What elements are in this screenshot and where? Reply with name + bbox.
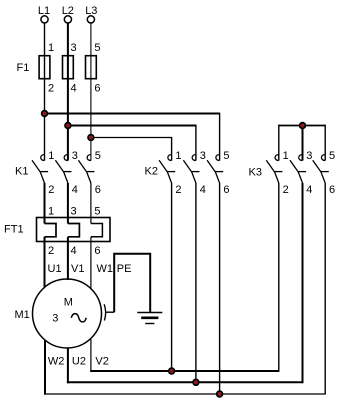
pin 2 fuse <box>48 83 54 95</box>
wire motor V2 down <box>90 339 92 373</box>
svg-text:1: 1 <box>175 150 181 162</box>
svg-text:M1: M1 <box>15 309 30 321</box>
terminal L1 <box>41 16 48 23</box>
svg-text:4: 4 <box>200 184 206 196</box>
wire K3 pole2 down <box>302 183 304 383</box>
svg-text:K2: K2 <box>145 166 158 178</box>
svg-text:FT1: FT1 <box>4 224 24 236</box>
node junction L3 <box>88 135 94 141</box>
motor PE terminal <box>104 304 105 320</box>
pin 2 K1 <box>48 184 54 196</box>
wire K1 pole3 to FT1 <box>90 183 92 224</box>
wire branch L3 to K2 <box>91 137 172 161</box>
label K1 <box>15 166 28 178</box>
contactor K2 pole 3 <box>207 155 223 183</box>
svg-text:5: 5 <box>329 150 335 162</box>
svg-text:4: 4 <box>71 83 77 95</box>
wire FT1 to motor V1 <box>67 237 69 280</box>
wire K2 pole3 down <box>219 183 221 394</box>
label V1 <box>71 263 84 275</box>
wire branch L1 to K2 <box>45 113 220 161</box>
wire K1 pole1 to FT1 <box>44 183 46 224</box>
wire L1 column <box>44 23 46 161</box>
svg-text:3: 3 <box>306 150 312 162</box>
label FT1 <box>4 224 24 236</box>
pin 6 K1 <box>95 184 101 196</box>
svg-text:2: 2 <box>175 184 181 196</box>
pin 4 K3 <box>306 184 312 196</box>
pin 2 FT1 <box>48 245 54 257</box>
wire K3 pole1 top <box>278 125 280 161</box>
terminal L3 <box>87 16 94 23</box>
wire branch L2 to K2 <box>68 125 196 161</box>
label L2 <box>62 5 74 17</box>
svg-text:5: 5 <box>95 150 101 162</box>
wire FT1 to motor U1 <box>44 237 46 288</box>
svg-text:2: 2 <box>48 83 54 95</box>
svg-text:3: 3 <box>71 206 77 218</box>
wire K2 pole1 down <box>171 183 173 371</box>
wire motor W2 down <box>44 341 46 395</box>
pin 1 K3 <box>283 150 289 162</box>
wire K3 pole1 down <box>278 183 280 372</box>
svg-text:2: 2 <box>48 245 54 257</box>
pin 3 FT1 <box>71 206 77 218</box>
svg-text:1: 1 <box>48 150 54 162</box>
svg-text:4: 4 <box>72 184 78 196</box>
pin 3 K1 <box>72 150 78 162</box>
svg-text:M: M <box>64 297 73 309</box>
pin 1 K2 <box>175 150 181 162</box>
svg-text:4: 4 <box>306 184 312 196</box>
motor M1 <box>33 279 102 348</box>
wire PE <box>106 254 150 313</box>
overload FT1 heater 2 <box>68 224 80 237</box>
pin 3 fuse <box>71 42 77 54</box>
svg-text:2: 2 <box>48 184 54 196</box>
pin 6 K3 <box>329 184 335 196</box>
wire bus W2 <box>44 393 325 395</box>
svg-text:W2: W2 <box>48 355 65 367</box>
pin 5 K1 <box>95 150 101 162</box>
pin 1 fuse <box>48 42 54 54</box>
label U2 <box>72 355 86 367</box>
node bus W2 junction <box>217 391 223 397</box>
wire K2 pole2 down <box>195 183 197 382</box>
svg-text:3: 3 <box>200 150 206 162</box>
label U1 <box>48 263 62 275</box>
contactor K3 pole 3 <box>313 155 329 183</box>
pin 5 K3 <box>329 150 335 162</box>
svg-text:1: 1 <box>48 206 54 218</box>
wire FT1 to motor W1 <box>90 237 92 290</box>
label V2 <box>95 355 108 367</box>
node K3 star point <box>300 123 306 129</box>
wire K3 pole3 down <box>324 183 326 395</box>
label PE <box>117 263 132 275</box>
svg-text:1: 1 <box>48 42 54 54</box>
svg-text:4: 4 <box>71 245 77 257</box>
svg-text:5: 5 <box>223 150 229 162</box>
pin 3 K2 <box>200 150 206 162</box>
pin 4 K2 <box>200 184 206 196</box>
pin 6 fuse <box>94 83 100 95</box>
svg-text:U1: U1 <box>48 263 62 275</box>
ground <box>137 313 162 324</box>
svg-text:1: 1 <box>283 150 289 162</box>
svg-text:PE: PE <box>117 263 132 275</box>
svg-text:6: 6 <box>94 83 100 95</box>
pin 5 K2 <box>223 150 229 162</box>
pin 4 fuse <box>71 83 77 95</box>
label M1 <box>15 309 30 321</box>
svg-text:6: 6 <box>94 245 100 257</box>
svg-text:3: 3 <box>72 150 78 162</box>
svg-text:5: 5 <box>94 206 100 218</box>
pin 1 K1 <box>48 150 54 162</box>
label L1 <box>38 5 50 17</box>
label L3 <box>85 5 97 17</box>
contactor K1 pole 1 <box>32 155 48 183</box>
contactor K1 pole 2 <box>55 155 71 183</box>
svg-text:6: 6 <box>223 184 229 196</box>
svg-text:3: 3 <box>52 313 58 325</box>
terminal L2 <box>64 16 71 23</box>
node bus U2 junction <box>193 379 199 385</box>
pin 2 K3 <box>283 184 289 196</box>
svg-text:F1: F1 <box>17 62 30 74</box>
svg-text:W1: W1 <box>97 263 114 275</box>
pin 6 K2 <box>223 184 229 196</box>
pin 1 FT1 <box>48 206 54 218</box>
wire K3 pole2 top <box>302 126 304 161</box>
svg-text:V1: V1 <box>71 263 84 275</box>
label K3 <box>249 167 262 179</box>
pin 4 FT1 <box>71 245 77 257</box>
node bus V2 junction <box>169 368 175 374</box>
pin 2 K2 <box>175 184 181 196</box>
svg-text:K3: K3 <box>249 167 262 179</box>
label F1 <box>17 62 30 74</box>
fuse F1 pole 1 <box>39 56 50 79</box>
contactor K2 pole 1 <box>159 155 175 183</box>
svg-text:K1: K1 <box>15 166 28 178</box>
overload relay FT1 box <box>37 218 111 242</box>
svg-text:U2: U2 <box>72 355 86 367</box>
fuse F1 pole 3 <box>86 56 97 79</box>
svg-text:5: 5 <box>94 42 100 54</box>
pin 4 K1 <box>72 184 78 196</box>
overload FT1 heater 3 <box>91 224 103 237</box>
contactor K3 pole 1 <box>266 155 282 183</box>
label W1 <box>97 263 114 275</box>
label K2 <box>145 166 158 178</box>
fuse F1 pole 2 <box>63 56 74 79</box>
pin 5 fuse <box>94 42 100 54</box>
wire bus V2 <box>90 370 278 372</box>
pin 5 FT1 <box>94 206 100 218</box>
node junction L1 <box>42 111 48 117</box>
svg-text:2: 2 <box>283 184 289 196</box>
overload FT1 heater 1 <box>45 224 57 237</box>
pin 6 FT1 <box>94 245 100 257</box>
node junction L2 <box>65 123 71 129</box>
pin 3 K3 <box>306 150 312 162</box>
contactor K1 pole 3 <box>78 155 94 183</box>
contactor K3 pole 2 <box>290 155 306 183</box>
wire K3 pole3 top <box>324 125 326 161</box>
svg-text:V2: V2 <box>95 355 108 367</box>
wire L2 column <box>67 23 69 161</box>
svg-text:3: 3 <box>71 42 77 54</box>
svg-text:6: 6 <box>95 184 101 196</box>
wire L3 column <box>90 23 92 161</box>
wire motor U2 down <box>67 348 69 383</box>
svg-text:6: 6 <box>329 184 335 196</box>
contactor K2 pole 2 <box>183 155 199 183</box>
wire K3 star bus <box>279 125 325 127</box>
label W2 <box>48 355 65 367</box>
wire K1 pole2 to FT1 <box>67 183 69 224</box>
wire bus U2 <box>67 381 303 383</box>
